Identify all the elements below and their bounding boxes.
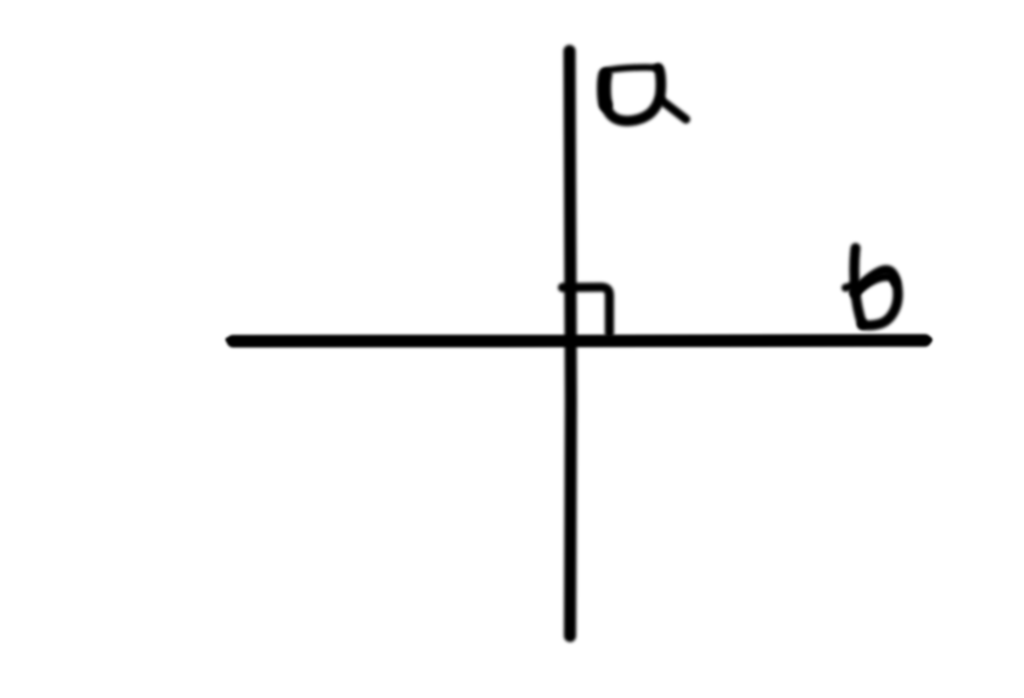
label b : bowl [854, 270, 898, 325]
label a : top bar [605, 67, 659, 71]
label a : right+bottom of bowl [606, 68, 661, 121]
line b (horizontal) [233, 334, 925, 347]
line a (vertical) [570, 51, 571, 636]
line b right tip [921, 338, 930, 343]
label a : tail [661, 100, 686, 119]
label b : tick [846, 285, 857, 288]
right-angle marker [563, 287, 610, 333]
label b : stem [854, 248, 862, 324]
label a : left of bowl [604, 75, 606, 105]
line b left tip [228, 340, 238, 341]
label b : bowl top overdraw [859, 277, 895, 290]
